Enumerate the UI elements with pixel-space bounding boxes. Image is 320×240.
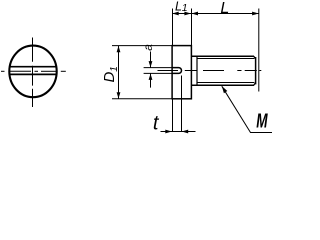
leader line to M <box>222 86 272 132</box>
arrow t right (points left to slot end) <box>182 130 189 134</box>
vertical centerline (front view) <box>32 38 34 108</box>
arrow L right <box>252 12 259 16</box>
extension line head left face (up and down) <box>172 9 174 47</box>
svg-text:1: 1 <box>109 66 120 72</box>
dimension line D1 <box>118 46 120 99</box>
extension line a bottom <box>144 72 172 74</box>
arrow L1 right <box>184 12 191 16</box>
chamfer top <box>254 56 256 59</box>
label M <box>256 110 268 132</box>
arrow D1 top <box>117 46 121 52</box>
leader arrowhead <box>222 86 228 93</box>
horizontal centerline (front view) <box>1 70 66 72</box>
svg-text:1: 1 <box>182 2 188 14</box>
arrow t left (points right to head face) <box>165 130 172 134</box>
chamfer bottom <box>254 83 256 86</box>
dimension line L1 and L <box>172 13 259 15</box>
extension line shaft end (L right) <box>258 9 260 92</box>
thread minor line top <box>197 58 254 60</box>
axis centerline (side view) <box>158 70 262 72</box>
svg-text:L: L <box>220 0 229 17</box>
dimension line t <box>161 131 196 133</box>
arrow a top (points down to slot top) <box>149 61 153 67</box>
extension line D1 bottom <box>112 98 172 100</box>
shaft bottom edge <box>191 84 254 86</box>
label D1 (rotated) <box>101 66 120 82</box>
thread runout line <box>196 56 198 85</box>
arrow L1 left <box>172 12 179 16</box>
extension line D1 top <box>112 45 172 47</box>
shaft top edge <box>191 55 254 57</box>
arrow L left <box>192 12 199 16</box>
slot bottom edge (front view) <box>10 73 56 75</box>
thread minor line bottom <box>197 82 254 84</box>
svg-text:a: a <box>141 44 155 51</box>
extension line slot depth (t right) <box>181 76 183 132</box>
slot cut in head (side view) <box>172 68 182 74</box>
head rectangle (side view) <box>172 46 191 99</box>
head outline circle (front view of screw head) <box>9 46 56 98</box>
extension line a top <box>144 67 172 69</box>
shaft end face <box>255 57 257 84</box>
dimension line a (upper tail) <box>150 52 152 68</box>
arrow D1 bottom <box>117 92 121 98</box>
svg-text:M: M <box>256 110 268 132</box>
extension line head right face (up) <box>191 9 193 46</box>
label a (rotated) <box>141 44 155 51</box>
svg-text:D: D <box>101 72 118 83</box>
slot top edge (front view) <box>10 66 56 68</box>
dimension line a (lower tail) <box>150 73 152 87</box>
arrow a bottom (points up to slot bottom) <box>149 74 153 80</box>
